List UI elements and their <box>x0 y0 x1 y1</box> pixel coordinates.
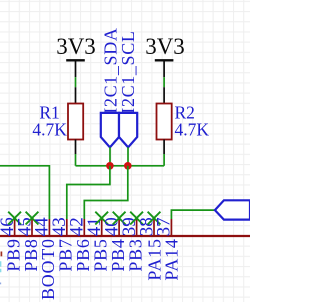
wire 3V3 to R1 <box>75 77 77 87</box>
no-connect pin 41 <box>95 212 108 225</box>
junction SDA <box>106 162 114 170</box>
pin 42 PB6 <box>67 217 94 271</box>
wire SDA to PB7 <box>67 166 110 219</box>
label I2C1_SDA <box>100 27 120 147</box>
pin 39 PB3 <box>119 217 146 271</box>
IC body edge <box>0 235 250 237</box>
svg-text:PA14: PA14 <box>162 238 182 280</box>
pin 41 PB5 <box>84 217 111 271</box>
left edge fragment red <box>0 283 1 285</box>
label I2C1_SCL <box>118 30 138 147</box>
wire PA14 to right label <box>171 210 215 219</box>
no-connect pin 40 <box>113 212 126 225</box>
resistor R1 <box>32 87 83 154</box>
left edge fragment maroon <box>0 252 2 257</box>
wire SDA stub <box>109 147 111 166</box>
pin 46 PB9 <box>0 217 23 271</box>
svg-text:4.7K: 4.7K <box>175 119 210 139</box>
svg-text:I2C1_SCL: I2C1_SCL <box>118 30 138 113</box>
label right (cropped) <box>215 200 250 219</box>
power symbol 3V3 (right) <box>145 34 185 77</box>
wire SCL stub <box>127 147 129 166</box>
resistor R2 <box>157 87 210 154</box>
svg-text:3V3: 3V3 <box>145 34 185 59</box>
no-connect pin 46 <box>8 212 21 225</box>
svg-text:37: 37 <box>154 217 175 236</box>
wire BOOT0 from left edge <box>0 166 49 219</box>
pin 43 PB7 <box>49 217 76 271</box>
wire rail R1-R2 <box>76 165 165 167</box>
pin 37 PA14 <box>154 217 182 280</box>
wire R1 to SDA rail <box>75 154 77 166</box>
pin 38 PA15 <box>136 217 164 280</box>
pin 44 BOOT0 <box>32 217 59 300</box>
power symbol 3V3 (left) <box>56 34 96 77</box>
pin 45 PB8 <box>14 217 41 271</box>
no-connect pin 45 <box>26 212 39 225</box>
no-connect pin 39 <box>130 212 143 225</box>
wire 3V3 to R2 <box>163 77 165 87</box>
svg-text:PB3: PB3 <box>125 238 145 271</box>
left edge fragment cyan <box>0 261 2 272</box>
svg-text:4.7K: 4.7K <box>32 119 67 139</box>
wire SCL to PB6 <box>84 166 128 219</box>
junction SCL <box>124 162 132 170</box>
pin 40 PB4 <box>101 217 128 271</box>
no-connect pin 38 <box>148 212 161 225</box>
wire R2 to rail <box>163 154 165 166</box>
svg-text:3V3: 3V3 <box>56 34 96 59</box>
